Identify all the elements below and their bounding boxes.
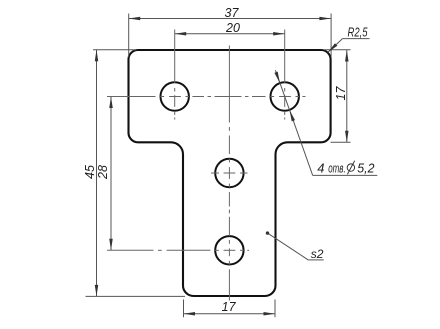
main vertical centerline [228, 46, 230, 301]
vertical centerline hole top-right [284, 30, 286, 120]
svg-text:28: 28 [96, 165, 110, 180]
dimension 28 [110, 97, 112, 251]
dimension 20 [175, 33, 285, 35]
svg-text:s2: s2 [311, 247, 324, 261]
svg-text:5,2: 5,2 [357, 160, 375, 175]
svg-text:45: 45 [83, 165, 97, 179]
vertical centerline hole top-left [174, 30, 176, 120]
hole callout leader 4 otv [275, 70, 377, 175]
dimension 17 bottom [184, 300, 276, 318]
svg-text:отв.: отв. [328, 161, 346, 175]
svg-text:4: 4 [317, 160, 324, 175]
hole bottom [215, 236, 243, 264]
dimension 37 [129, 14, 331, 58]
horizontal centerline through top holes [107, 96, 306, 98]
svg-text:37: 37 [225, 6, 240, 20]
diameter symbol [347, 161, 355, 175]
horizontal centerline middle hole [211, 172, 248, 174]
svg-text:17: 17 [222, 300, 237, 314]
thickness leader s2 [268, 233, 324, 260]
svg-text:R2,5: R2,5 [348, 26, 368, 40]
radius leader R2,5 [328, 39, 370, 53]
horizontal centerline bottom hole [107, 249, 249, 251]
svg-text:20: 20 [225, 21, 240, 35]
plate outline [129, 50, 331, 296]
hole top-left [161, 82, 189, 110]
dimension 17 right [324, 50, 351, 143]
hole top-right [271, 82, 299, 110]
dimension 45 [86, 50, 186, 297]
svg-text:17: 17 [334, 86, 348, 101]
hole middle [215, 159, 243, 187]
